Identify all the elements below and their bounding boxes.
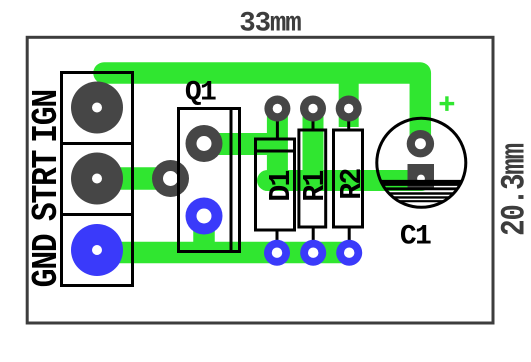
- wire STRT to Q1 base: [97, 167, 171, 190]
- plus sign for C1: [440, 96, 455, 111]
- pad R1 top: [300, 96, 326, 122]
- svg-text:STRT: STRT: [27, 150, 68, 221]
- pad J1-1 IGN: [71, 82, 123, 134]
- lead R2 bottom: [348, 227, 351, 250]
- svg-text:Q1: Q1: [185, 78, 216, 109]
- wire IGN net: top trace to C1 plus: [104, 73, 420, 144]
- pad Q1 base: [152, 160, 189, 197]
- wire GND bottom trace: [97, 242, 349, 264]
- diode D1 body: [256, 139, 295, 230]
- capacitor C1 negative square pad: [408, 164, 435, 190]
- resistor R2 body: [334, 130, 363, 227]
- svg-text:D1: D1: [263, 170, 299, 201]
- wire mid band to C1 minus: [268, 170, 422, 191]
- svg-text:R2: R2: [334, 169, 370, 199]
- pad Q1 emitter: [186, 198, 223, 235]
- capacitor C1 outline: [377, 118, 466, 207]
- wire Q1 emitter stub to GND: [193, 216, 215, 245]
- lead R1 bottom: [312, 227, 315, 250]
- wire R2 stub from IGN trace: [339, 83, 359, 127]
- svg-text:R1: R1: [297, 170, 333, 201]
- pad R1 bottom: [300, 240, 326, 266]
- pad R2 top: [336, 96, 362, 122]
- svg-text:GND: GND: [27, 234, 68, 288]
- lead R2 top: [347, 106, 350, 130]
- capacitor C1 positive pad: [407, 130, 434, 157]
- pad Q1 collector: [186, 125, 223, 162]
- pad D1 top: [264, 96, 290, 122]
- connector J1 outline: [62, 73, 133, 286]
- lead R1 top: [312, 106, 315, 130]
- pad J1-2 STRT: [71, 153, 123, 205]
- lead D1 top: [276, 106, 279, 139]
- wire R1 top stub: [303, 109, 324, 181]
- pad J1-3 GND: [71, 224, 123, 276]
- wire D1 top stub: [267, 109, 288, 173]
- svg-text:33mm: 33mm: [239, 9, 301, 40]
- capacitor C1 polarity hatch: [382, 183, 462, 201]
- svg-text:20.3mm: 20.3mm: [496, 144, 531, 236]
- board outline: [27, 37, 493, 323]
- svg-text:IGN: IGN: [27, 90, 68, 143]
- pad R2 bottom: [336, 240, 362, 266]
- pad D1 bottom: [264, 240, 290, 266]
- resistor R1 body: [299, 130, 326, 227]
- lead D1 bottom: [276, 230, 279, 250]
- svg-text:C1: C1: [400, 222, 431, 253]
- wire Q1 collector to D1: [204, 133, 277, 155]
- transistor Q1 outline: [179, 109, 240, 252]
